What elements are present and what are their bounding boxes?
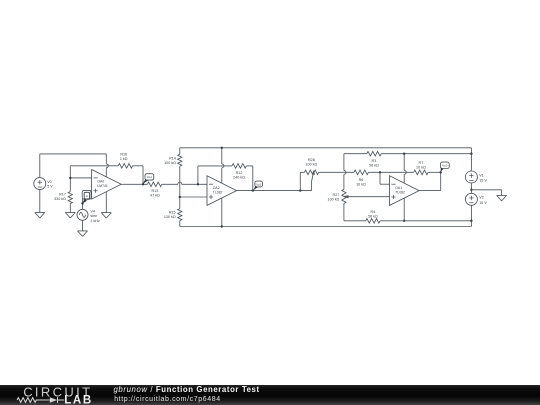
- svg-text:R6: R6: [359, 178, 364, 182]
- svg-text:Vo1: Vo1: [147, 175, 153, 179]
- svg-text:1 kΩ: 1 kΩ: [120, 157, 128, 161]
- svg-text:V2: V2: [479, 196, 484, 200]
- svg-text:R15: R15: [169, 211, 176, 215]
- svg-text:R13: R13: [152, 189, 159, 193]
- svg-text:56 kΩ: 56 kΩ: [368, 214, 378, 218]
- svg-text:47 kΩ: 47 kΩ: [150, 193, 160, 197]
- svg-text:LAB: LAB: [64, 394, 92, 405]
- svg-text:15 V: 15 V: [479, 179, 487, 183]
- svg-text:5 V: 5 V: [47, 185, 53, 189]
- svg-text:OA0: OA0: [97, 180, 104, 184]
- svg-text:56 kΩ: 56 kΩ: [369, 164, 379, 168]
- svg-text:V0: V0: [47, 180, 52, 184]
- svg-text:100 kΩ: 100 kΩ: [328, 198, 340, 202]
- svg-text:R3: R3: [372, 159, 377, 163]
- svg-text:gbrunow / Function Generator T: gbrunow / Function Generator Test: [114, 385, 260, 394]
- svg-text:10 kΩ: 10 kΩ: [416, 165, 426, 169]
- svg-text:100 kΩ: 100 kΩ: [164, 161, 176, 165]
- svg-text:sine: sine: [90, 214, 97, 218]
- svg-text:R28: R28: [308, 158, 315, 162]
- svg-text:TL082: TL082: [395, 190, 405, 194]
- svg-text:in: in: [86, 194, 89, 198]
- svg-text:Vo3: Vo3: [442, 164, 448, 168]
- svg-text:330 kΩ: 330 kΩ: [54, 197, 66, 201]
- svg-text:10 kΩ: 10 kΩ: [356, 183, 366, 187]
- svg-text:R16: R16: [120, 152, 127, 156]
- svg-text:15 V: 15 V: [479, 201, 487, 205]
- svg-text:R17: R17: [59, 192, 66, 196]
- svg-text:R14: R14: [169, 157, 176, 161]
- svg-text:R7: R7: [419, 161, 424, 165]
- svg-text:OA1: OA1: [395, 186, 402, 190]
- svg-text:TL082: TL082: [213, 190, 223, 194]
- svg-text:1 kHz: 1 kHz: [90, 219, 100, 223]
- svg-text:R4: R4: [371, 210, 376, 214]
- svg-text:130 kΩ: 130 kΩ: [164, 215, 176, 219]
- svg-text:Vo2: Vo2: [256, 182, 262, 186]
- svg-text:OA2: OA2: [213, 186, 220, 190]
- svg-text:http://circuitlab.com/c7p6484: http://circuitlab.com/c7p6484: [114, 396, 221, 403]
- svg-text:240 kΩ: 240 kΩ: [233, 175, 245, 179]
- svg-text:R27: R27: [333, 193, 340, 197]
- svg-text:V1: V1: [479, 173, 484, 177]
- svg-text:LM741: LM741: [97, 184, 107, 188]
- svg-text:100 kΩ: 100 kΩ: [306, 162, 318, 166]
- svg-text:R12: R12: [236, 171, 243, 175]
- svg-text:V4: V4: [90, 210, 95, 214]
